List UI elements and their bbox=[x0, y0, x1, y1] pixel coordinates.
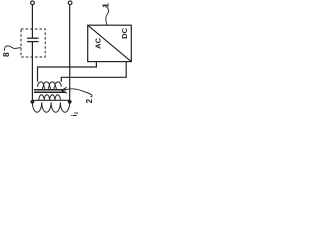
svg-text:8: 8 bbox=[1, 52, 11, 57]
svg-text:i2: i2 bbox=[72, 112, 80, 117]
svg-text:1: 1 bbox=[101, 3, 110, 8]
svg-text:DC: DC bbox=[120, 27, 129, 38]
svg-text:2: 2 bbox=[85, 98, 94, 103]
svg-text:AC: AC bbox=[93, 37, 102, 48]
